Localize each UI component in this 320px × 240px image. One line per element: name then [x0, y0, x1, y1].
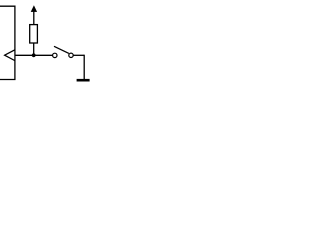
wire (box to switch): [15, 54, 53, 56]
switch S1 right contact: [69, 53, 73, 57]
wire (down to ground): [83, 55, 85, 79]
wire (node to resistor): [33, 43, 35, 55]
wire (resistor to supply arrow): [33, 11, 35, 25]
node junction dot: [32, 53, 36, 57]
ground bar: [77, 79, 90, 82]
switch S1 lever (open): [54, 46, 69, 53]
input arrowhead (open triangle pointing left on box edge): [5, 50, 15, 61]
resistor R1 (IEC rectangle): [30, 25, 38, 43]
wire (switch to ground, horizontal): [73, 54, 84, 56]
IC box U1 (open at left image edge): [0, 6, 15, 79]
supply arrow (to VCC, filled): [31, 6, 36, 12]
switch S1 left contact: [53, 53, 57, 57]
